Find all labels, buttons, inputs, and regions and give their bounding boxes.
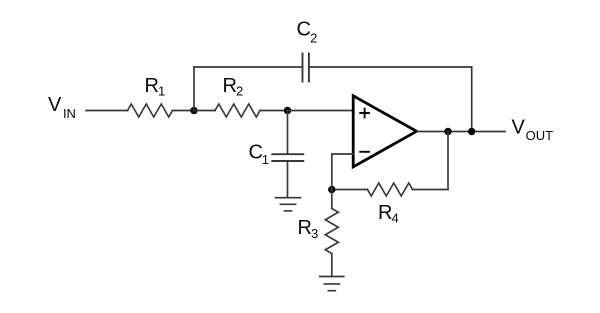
resistor R4 [368, 183, 413, 196]
wire R2 to node B [260, 110, 288, 112]
wire op-amp output [417, 131, 505, 133]
resistor R1 [128, 104, 173, 117]
wire R4 right lead [413, 189, 449, 191]
wire node A up to C2 rail [193, 67, 195, 111]
svg-text:R2: R2 [223, 75, 244, 99]
label R4 [378, 202, 399, 226]
label C2 [297, 19, 318, 46]
wire R1 to node A [173, 110, 195, 112]
node D [468, 128, 476, 136]
wire C2 rail down to node D [471, 67, 473, 132]
svg-text:VOUT: VOUT [512, 117, 554, 143]
node C [444, 128, 452, 136]
svg-text:VIN: VIN [48, 94, 76, 121]
wire node E to op-amp - input [332, 154, 353, 190]
wire node C down to R4 [447, 132, 449, 190]
wire node B down to C1 [287, 111, 289, 155]
wire R4 to node E [332, 189, 368, 191]
op-amp U1 [353, 96, 416, 167]
ground under R3 [320, 277, 344, 291]
label R2 [223, 75, 244, 99]
wire C1 to ground [287, 161, 289, 197]
wire node E down to R3 [331, 190, 333, 209]
svg-text:C2: C2 [297, 19, 318, 46]
wire node B to op-amp + input [288, 110, 354, 112]
node B [284, 107, 292, 115]
label C1 [249, 142, 269, 168]
node A [190, 107, 198, 115]
op-amp + input marker [360, 109, 369, 118]
capacitor C2 [303, 54, 309, 82]
wire VIN to R1 [86, 110, 128, 112]
resistor R2 [215, 104, 260, 117]
resistor R3 [325, 209, 338, 254]
label R1 [145, 75, 166, 99]
label VIN [48, 94, 76, 121]
node E [328, 186, 336, 194]
capacitor C1 [272, 154, 303, 161]
wire C2 rail left [194, 66, 303, 68]
svg-text:R4: R4 [378, 202, 399, 226]
wire R3 to ground [331, 254, 333, 277]
svg-text:C1: C1 [249, 142, 269, 168]
wire C2 rail right [309, 66, 472, 68]
op-amp - input marker [360, 151, 369, 153]
ground under C1 [276, 198, 301, 211]
label R3 [298, 217, 319, 241]
label VOUT [512, 117, 554, 143]
svg-text:R3: R3 [298, 217, 319, 241]
wire node A to R2 [194, 110, 215, 112]
svg-text:R1: R1 [145, 75, 166, 99]
